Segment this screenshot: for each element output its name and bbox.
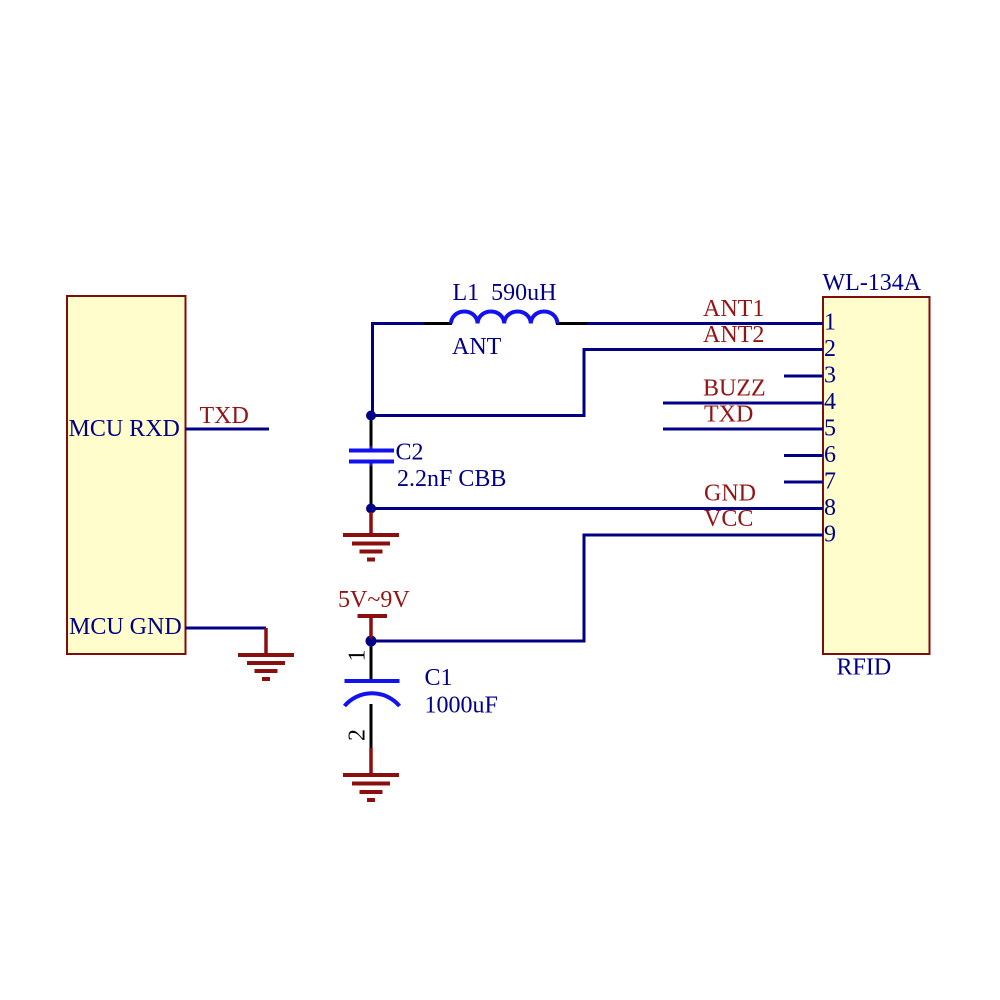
- svg-text:1: 1: [345, 650, 371, 662]
- svg-text:ANT1: ANT1: [703, 296, 764, 322]
- svg-text:TXD: TXD: [200, 403, 249, 429]
- svg-text:MCU GND: MCU GND: [69, 614, 182, 640]
- svg-text:3: 3: [824, 363, 836, 389]
- svg-text:6: 6: [824, 442, 836, 468]
- svg-text:BUZZ: BUZZ: [703, 376, 766, 402]
- svg-text:L1 590uH: L1 590uH: [453, 280, 557, 306]
- svg-text:C1: C1: [425, 665, 453, 691]
- svg-text:MCU RXD: MCU RXD: [69, 416, 180, 442]
- svg-text:ANT: ANT: [452, 334, 502, 360]
- svg-text:VCC: VCC: [704, 506, 753, 532]
- svg-text:7: 7: [824, 469, 836, 495]
- svg-text:5: 5: [824, 416, 836, 442]
- svg-text:GND: GND: [704, 481, 756, 507]
- svg-text:1000uF: 1000uF: [425, 693, 498, 719]
- svg-text:C2: C2: [396, 440, 424, 466]
- svg-text:8: 8: [824, 495, 836, 521]
- svg-text:2.2nF CBB: 2.2nF CBB: [397, 466, 506, 492]
- svg-text:1: 1: [824, 310, 836, 336]
- svg-text:2: 2: [345, 729, 371, 741]
- svg-text:2: 2: [824, 336, 836, 362]
- svg-text:WL-134A: WL-134A: [823, 270, 922, 296]
- svg-text:9: 9: [824, 522, 836, 548]
- svg-text:ANT2: ANT2: [703, 322, 764, 348]
- svg-text:5V~9V: 5V~9V: [338, 587, 410, 613]
- svg-text:TXD: TXD: [704, 402, 753, 428]
- svg-text:RFID: RFID: [837, 655, 892, 681]
- svg-text:4: 4: [824, 389, 836, 415]
